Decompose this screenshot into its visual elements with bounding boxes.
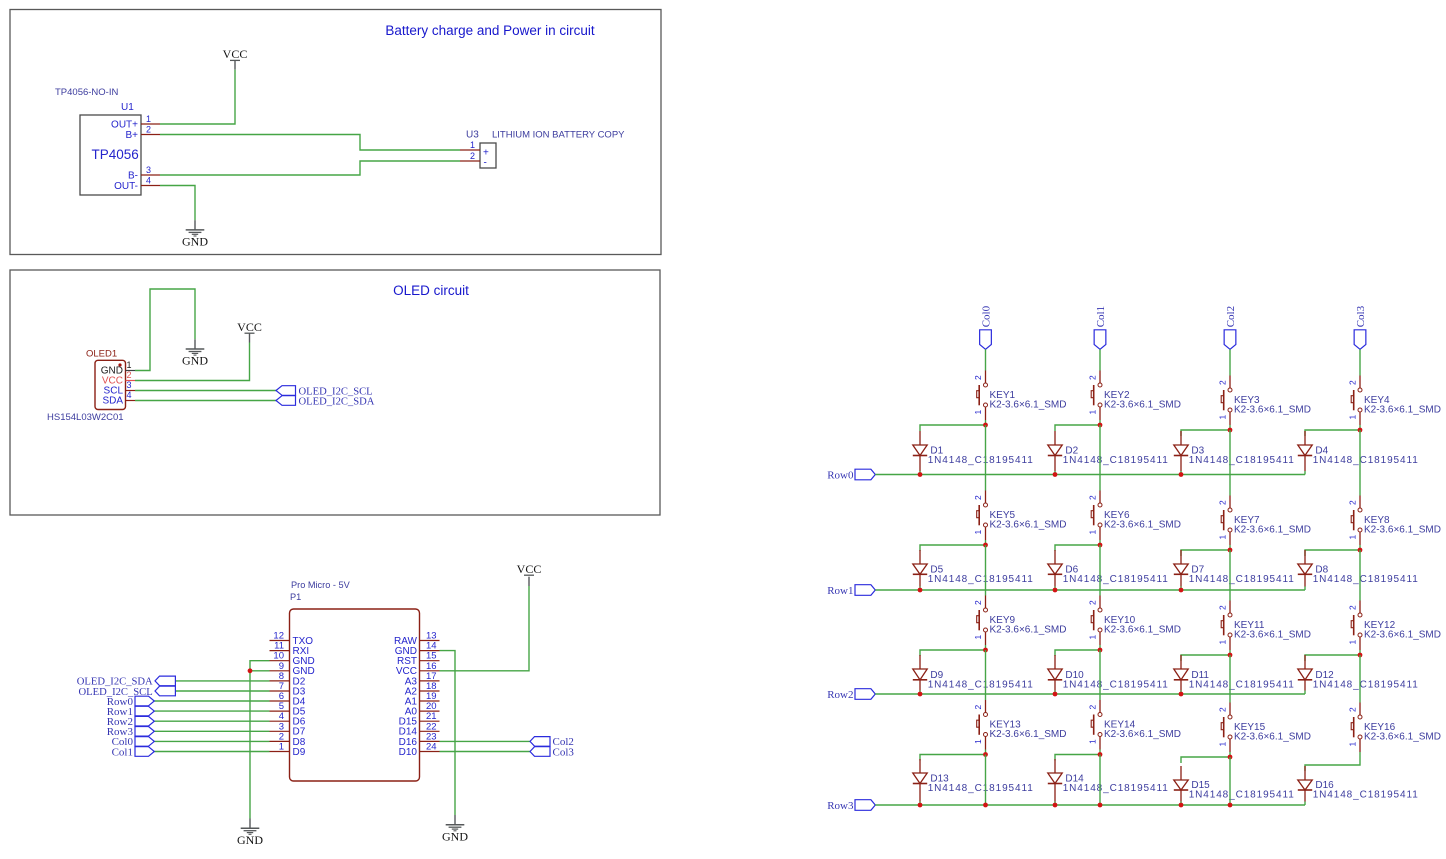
wire U1 OUT- to GND bbox=[160, 186, 195, 221]
power flag VCC (OLED section) bbox=[237, 320, 262, 343]
svg-text:Pro Micro - 5V: Pro Micro - 5V bbox=[291, 580, 351, 590]
wire column 0 to Row3 bbox=[985, 755, 987, 806]
svg-text:1: 1 bbox=[1348, 742, 1358, 747]
svg-text:1: 1 bbox=[1218, 415, 1228, 420]
svg-text:OLED circuit: OLED circuit bbox=[393, 283, 469, 298]
svg-text:2: 2 bbox=[973, 600, 983, 605]
power flag VCC (Pro Micro) bbox=[517, 562, 542, 586]
wire KEY11 junction to D11 bbox=[1181, 655, 1230, 661]
wire column 0 between rows bbox=[985, 425, 987, 491]
wire KEY16 to D16 bbox=[1305, 757, 1360, 771]
wire VCC to U1 pin 1 bbox=[160, 70, 235, 124]
svg-text:VCC: VCC bbox=[237, 320, 262, 334]
wire Col0 label down to KEY1 bbox=[985, 349, 987, 370]
wire column 2 between rows bbox=[1229, 430, 1231, 496]
svg-text:24: 24 bbox=[426, 742, 437, 753]
wire VCC to P1 pin16 bbox=[440, 586, 530, 671]
node junction KEY14 bbox=[1098, 752, 1103, 757]
node junction column 1 Row3 bbox=[1098, 803, 1103, 808]
wire KEY3 junction to D3 bbox=[1181, 430, 1230, 436]
svg-text:1N4148_C18195411: 1N4148_C18195411 bbox=[928, 455, 1034, 466]
wire P1 pin10 GND down bbox=[250, 661, 270, 671]
svg-text:1N4148_C18195411: 1N4148_C18195411 bbox=[1189, 679, 1295, 690]
switch KEY16 K2-3.6x6.1_SMD bbox=[1348, 703, 1442, 758]
wire KEY12 junction to D12 bbox=[1305, 655, 1360, 661]
wire column 1 between rows bbox=[1099, 545, 1101, 596]
svg-text:1N4148_C18195411: 1N4148_C18195411 bbox=[1189, 574, 1295, 585]
node junction KEY8 bbox=[1358, 548, 1363, 553]
diode D2 1N4148_C18195411 bbox=[1048, 431, 1169, 475]
switch KEY5 K2-3.6x6.1_SMD bbox=[973, 491, 1067, 546]
node junction column 2 Row3 bbox=[1228, 803, 1233, 808]
svg-text:Col3: Col3 bbox=[1355, 305, 1367, 327]
svg-text:1: 1 bbox=[973, 530, 983, 535]
svg-text:2: 2 bbox=[1088, 375, 1098, 380]
svg-text:1: 1 bbox=[973, 635, 983, 640]
svg-text:SDA: SDA bbox=[102, 395, 123, 406]
wire Row2 to P1 bbox=[154, 720, 269, 722]
wire column 0 between rows bbox=[985, 545, 987, 596]
svg-text:Row3: Row3 bbox=[827, 800, 854, 812]
diode D10 1N4148_C18195411 bbox=[1048, 655, 1169, 694]
diode D4 1N4148_C18195411 bbox=[1298, 431, 1419, 475]
svg-text:1: 1 bbox=[1348, 535, 1358, 540]
svg-text:2: 2 bbox=[1088, 600, 1098, 605]
node junction KEY9 bbox=[983, 648, 988, 653]
svg-text:-: - bbox=[484, 157, 487, 168]
svg-text:K2-3.6×6.1_SMD: K2-3.6×6.1_SMD bbox=[1364, 630, 1441, 641]
wire OLED1 SDA to label bbox=[135, 400, 276, 402]
svg-text:3: 3 bbox=[127, 380, 132, 390]
ground GND (Pro Micro right) bbox=[442, 815, 468, 843]
svg-text:2: 2 bbox=[146, 125, 151, 135]
svg-text:Col1: Col1 bbox=[112, 746, 133, 758]
power flag VCC (battery section) bbox=[223, 47, 248, 69]
net label Row2 bbox=[827, 689, 875, 701]
wire junction to GND bbox=[249, 671, 251, 819]
wire column 1 between rows bbox=[1099, 650, 1101, 700]
net label Col0 (matrix top) bbox=[980, 305, 993, 349]
wire Col1 to P1 bbox=[154, 751, 269, 753]
svg-text:P1: P1 bbox=[290, 592, 301, 602]
node junction KEY7 bbox=[1228, 548, 1233, 553]
wire column 2 to Row3 bbox=[1229, 757, 1231, 805]
node junction KEY11 bbox=[1228, 653, 1233, 658]
svg-text:2: 2 bbox=[973, 705, 983, 710]
wire column 3 between rows bbox=[1359, 550, 1361, 601]
ground GND (battery section) bbox=[182, 220, 208, 248]
svg-text:1N4148_C18195411: 1N4148_C18195411 bbox=[928, 679, 1034, 690]
net label Row2 bbox=[107, 716, 155, 728]
wire VCC to OLED1 pin2 bbox=[135, 343, 250, 381]
net label Row0 bbox=[107, 696, 155, 708]
wire Row0 to P1 bbox=[154, 700, 269, 702]
node junction D9 Row2 bbox=[918, 692, 923, 697]
diode D15 1N4148_C18195411 bbox=[1174, 766, 1295, 805]
svg-text:Battery charge and Power in ci: Battery charge and Power in circuit bbox=[385, 23, 595, 38]
MCU P1 Pro Micro - 5V bbox=[270, 580, 440, 781]
switch KEY8 K2-3.6x6.1_SMD bbox=[1348, 496, 1442, 551]
svg-text:K2-3.6×6.1_SMD: K2-3.6×6.1_SMD bbox=[1364, 732, 1441, 743]
svg-text:K2-3.6×6.1_SMD: K2-3.6×6.1_SMD bbox=[990, 520, 1067, 531]
section box: Battery charge and Power in circuit bbox=[10, 10, 661, 255]
svg-text:1: 1 bbox=[1088, 530, 1098, 535]
svg-text:D9: D9 bbox=[293, 747, 306, 758]
node junction column 0 Row3 bbox=[983, 803, 988, 808]
wire KEY5 junction to D5 bbox=[920, 545, 986, 551]
svg-text:1N4148_C18195411: 1N4148_C18195411 bbox=[1063, 783, 1169, 794]
wire KEY14 junction to D14 bbox=[1055, 755, 1100, 761]
svg-text:2: 2 bbox=[1348, 707, 1358, 712]
node junction KEY12 bbox=[1358, 653, 1363, 658]
IC U1 TP4056 bbox=[55, 87, 160, 195]
svg-text:2: 2 bbox=[1218, 380, 1228, 385]
svg-text:OLED1: OLED1 bbox=[86, 349, 117, 360]
svg-text:TP4056-NO-IN: TP4056-NO-IN bbox=[55, 87, 118, 98]
svg-text:1: 1 bbox=[1088, 410, 1098, 415]
switch KEY15 K2-3.6x6.1_SMD bbox=[1218, 703, 1312, 758]
switch KEY10 K2-3.6x6.1_SMD bbox=[1088, 596, 1182, 651]
svg-text:1N4148_C18195411: 1N4148_C18195411 bbox=[928, 783, 1034, 794]
wire Col2 label down to KEY3 bbox=[1229, 349, 1231, 375]
svg-text:1N4148_C18195411: 1N4148_C18195411 bbox=[1189, 455, 1295, 466]
switch KEY1 K2-3.6x6.1_SMD bbox=[973, 371, 1067, 426]
svg-text:1: 1 bbox=[470, 140, 475, 150]
net label Row3 bbox=[827, 800, 875, 812]
net label Row1 bbox=[827, 585, 875, 597]
svg-text:K2-3.6×6.1_SMD: K2-3.6×6.1_SMD bbox=[990, 625, 1067, 636]
wire column 1 to Row3 bbox=[1099, 755, 1101, 806]
switch KEY14 K2-3.6x6.1_SMD bbox=[1088, 700, 1182, 755]
net label Col1 (matrix top) bbox=[1094, 306, 1107, 349]
svg-text:1N4148_C18195411: 1N4148_C18195411 bbox=[1313, 574, 1419, 585]
node junction KEY6 bbox=[1098, 543, 1103, 548]
wire KEY6 junction to D6 bbox=[1055, 545, 1100, 551]
net label OLED_I2C_SCL bbox=[276, 386, 373, 398]
wire KEY8 junction to D8 bbox=[1305, 550, 1360, 556]
node junction D1 Row0 bbox=[918, 472, 923, 477]
svg-text:2: 2 bbox=[1348, 605, 1358, 610]
svg-text:K2-3.6×6.1_SMD: K2-3.6×6.1_SMD bbox=[990, 729, 1067, 740]
svg-text:K2-3.6×6.1_SMD: K2-3.6×6.1_SMD bbox=[1234, 630, 1311, 641]
wire column 2 between rows bbox=[1229, 655, 1231, 703]
svg-text:VCC: VCC bbox=[223, 47, 248, 61]
wire column 3 between rows bbox=[1359, 430, 1361, 496]
svg-text:2: 2 bbox=[127, 370, 132, 380]
net label Col3 (matrix top) bbox=[1354, 305, 1367, 349]
svg-text:B+: B+ bbox=[125, 130, 138, 141]
svg-text:2: 2 bbox=[1088, 495, 1098, 500]
svg-text:HS154L03W2C01: HS154L03W2C01 bbox=[47, 412, 124, 423]
svg-text:Row0: Row0 bbox=[827, 470, 854, 482]
svg-text:GND: GND bbox=[442, 829, 468, 843]
node junction D15 Row3 bbox=[1179, 803, 1184, 808]
net label Col1 bbox=[112, 746, 155, 758]
svg-text:VCC: VCC bbox=[517, 562, 542, 576]
node junction KEY3 bbox=[1228, 428, 1233, 433]
wire Row3 horizontal bbox=[875, 804, 1305, 806]
node junction D6 Row1 bbox=[1053, 588, 1058, 593]
svg-text:K2-3.6×6.1_SMD: K2-3.6×6.1_SMD bbox=[1234, 732, 1311, 743]
wire Row2 horizontal bbox=[875, 693, 1305, 695]
svg-text:3: 3 bbox=[146, 165, 151, 175]
net label OLED_I2C_SCL bbox=[79, 686, 176, 698]
svg-text:1: 1 bbox=[973, 410, 983, 415]
wire U1 B- to battery pin 2 bbox=[160, 161, 460, 175]
wire column 2 between rows bbox=[1229, 550, 1231, 601]
svg-text:2: 2 bbox=[1218, 605, 1228, 610]
svg-text:OUT-: OUT- bbox=[114, 181, 138, 192]
switch KEY7 K2-3.6x6.1_SMD bbox=[1218, 496, 1312, 551]
svg-text:Col2: Col2 bbox=[1225, 306, 1237, 327]
wire KEY13 junction to D13 bbox=[920, 755, 986, 761]
wire OLED1 pin1 to GND bbox=[135, 289, 195, 371]
node junction KEY4 bbox=[1358, 428, 1363, 433]
svg-text:4: 4 bbox=[127, 390, 132, 400]
node junction D10 Row2 bbox=[1053, 692, 1058, 697]
node junction KEY5 bbox=[983, 543, 988, 548]
svg-text:Row2: Row2 bbox=[827, 689, 853, 701]
svg-text:1: 1 bbox=[127, 360, 132, 370]
net label Col2 bbox=[530, 736, 574, 748]
svg-text:1: 1 bbox=[1218, 640, 1228, 645]
svg-text:1: 1 bbox=[973, 739, 983, 744]
wire KEY4 junction to D4 bbox=[1305, 430, 1360, 436]
svg-text:1: 1 bbox=[1088, 739, 1098, 744]
node junction D13 Row3 bbox=[918, 803, 923, 808]
diode D6 1N4148_C18195411 bbox=[1048, 550, 1169, 590]
wire KEY2 junction to D2 bbox=[1055, 425, 1100, 431]
wire KEY10 junction to D10 bbox=[1055, 650, 1100, 656]
svg-text:1: 1 bbox=[146, 114, 151, 124]
wire OLED_I2C_SCL to P1 bbox=[175, 690, 269, 692]
switch KEY3 K2-3.6x6.1_SMD bbox=[1218, 376, 1312, 431]
wire OLED_I2C_SDA to P1 bbox=[175, 680, 269, 682]
net label Col2 (matrix top) bbox=[1224, 306, 1237, 349]
svg-text:D10: D10 bbox=[399, 747, 418, 758]
node junction KEY15 bbox=[1228, 755, 1233, 760]
section box: OLED circuit bbox=[10, 270, 660, 515]
wire column 3 between rows bbox=[1359, 655, 1361, 703]
node junction D14 Row3 bbox=[1053, 803, 1058, 808]
wire KEY9 junction to D9 bbox=[920, 650, 986, 656]
svg-text:1: 1 bbox=[1348, 640, 1358, 645]
svg-text:1N4148_C18195411: 1N4148_C18195411 bbox=[1063, 679, 1169, 690]
switch KEY12 K2-3.6x6.1_SMD bbox=[1348, 601, 1442, 656]
svg-text:K2-3.6×6.1_SMD: K2-3.6×6.1_SMD bbox=[990, 400, 1067, 411]
svg-text:Row1: Row1 bbox=[827, 585, 853, 597]
diode D9 1N4148_C18195411 bbox=[913, 655, 1034, 694]
switch KEY9 K2-3.6x6.1_SMD bbox=[973, 596, 1067, 651]
node junction pin9/pin10 bbox=[248, 668, 253, 673]
wire column 0 between rows bbox=[985, 650, 987, 700]
diode D12 1N4148_C18195411 bbox=[1298, 655, 1419, 694]
wire P1 pin9 GND to ground bbox=[250, 670, 270, 672]
svg-text:GND: GND bbox=[237, 833, 263, 847]
svg-text:K2-3.6×6.1_SMD: K2-3.6×6.1_SMD bbox=[1364, 405, 1441, 416]
wire U1 B+ to battery pin 1 bbox=[160, 135, 460, 151]
net label Row0 bbox=[827, 469, 875, 481]
svg-text:1N4148_C18195411: 1N4148_C18195411 bbox=[1313, 790, 1419, 801]
svg-text:1N4148_C18195411: 1N4148_C18195411 bbox=[928, 574, 1034, 585]
svg-text:1: 1 bbox=[279, 742, 284, 753]
wire Col0 to P1 bbox=[154, 740, 269, 742]
diode D8 1N4148_C18195411 bbox=[1298, 550, 1419, 590]
svg-text:LITHIUM ION BATTERY COPY: LITHIUM ION BATTERY COPY bbox=[492, 130, 625, 141]
svg-text:K2-3.6×6.1_SMD: K2-3.6×6.1_SMD bbox=[1104, 520, 1181, 531]
battery U3 LITHIUM ION BATTERY COPY bbox=[460, 130, 625, 169]
wire OLED1 SCL to label bbox=[135, 390, 276, 392]
svg-text:1N4148_C18195411: 1N4148_C18195411 bbox=[1189, 790, 1295, 801]
wire P1 pin23 D16 to Col2 bbox=[440, 740, 531, 742]
svg-text:GND: GND bbox=[182, 235, 208, 249]
node junction D5 Row1 bbox=[918, 588, 923, 593]
node junction KEY2 bbox=[1098, 423, 1103, 428]
svg-text:OUT+: OUT+ bbox=[111, 119, 138, 130]
svg-text:2: 2 bbox=[470, 151, 475, 161]
svg-text:K2-3.6×6.1_SMD: K2-3.6×6.1_SMD bbox=[1234, 525, 1311, 536]
diode D14 1N4148_C18195411 bbox=[1048, 759, 1169, 805]
net label Row1 bbox=[107, 706, 155, 718]
svg-text:TP4056: TP4056 bbox=[92, 147, 139, 162]
svg-text:K2-3.6×6.1_SMD: K2-3.6×6.1_SMD bbox=[1104, 625, 1181, 636]
diode D11 1N4148_C18195411 bbox=[1174, 655, 1295, 694]
node junction D7 Row1 bbox=[1179, 588, 1184, 593]
svg-text:1: 1 bbox=[1348, 415, 1358, 420]
svg-text:2: 2 bbox=[1088, 705, 1098, 710]
svg-text:1: 1 bbox=[1218, 742, 1228, 747]
diode D16 1N4148_C18195411 bbox=[1298, 766, 1419, 805]
svg-text:Col1: Col1 bbox=[1095, 306, 1107, 327]
module OLED1 HS154L03W2C01 bbox=[47, 349, 135, 424]
svg-text:GND: GND bbox=[182, 354, 208, 368]
net label Col0 bbox=[112, 736, 155, 748]
net label Col3 bbox=[530, 746, 574, 758]
node junction KEY13 bbox=[983, 752, 988, 757]
svg-text:K2-3.6×6.1_SMD: K2-3.6×6.1_SMD bbox=[1234, 405, 1311, 416]
svg-text:2: 2 bbox=[1348, 500, 1358, 505]
svg-text:K2-3.6×6.1_SMD: K2-3.6×6.1_SMD bbox=[1104, 400, 1181, 411]
svg-text:1N4148_C18195411: 1N4148_C18195411 bbox=[1063, 455, 1169, 466]
wire KEY7 junction to D7 bbox=[1181, 550, 1230, 556]
net label OLED_I2C_SDA bbox=[77, 676, 176, 688]
node junction KEY10 bbox=[1098, 648, 1103, 653]
switch KEY2 K2-3.6x6.1_SMD bbox=[1088, 371, 1182, 426]
svg-text:K2-3.6×6.1_SMD: K2-3.6×6.1_SMD bbox=[1104, 729, 1181, 740]
wire KEY1 junction to D1 bbox=[920, 425, 986, 431]
wire Col1 label down to KEY2 bbox=[1099, 349, 1101, 370]
diode D5 1N4148_C18195411 bbox=[913, 550, 1034, 590]
svg-text:1N4148_C18195411: 1N4148_C18195411 bbox=[1063, 574, 1169, 585]
svg-text:OLED_I2C_SDA: OLED_I2C_SDA bbox=[299, 396, 375, 407]
net label Row3 bbox=[107, 726, 155, 738]
switch KEY6 K2-3.6x6.1_SMD bbox=[1088, 491, 1182, 546]
net label OLED_I2C_SDA bbox=[276, 396, 375, 408]
svg-text:1N4148_C18195411: 1N4148_C18195411 bbox=[1313, 455, 1419, 466]
svg-text:2: 2 bbox=[973, 375, 983, 380]
ground GND (OLED section) bbox=[182, 339, 208, 367]
diode D13 1N4148_C18195411 bbox=[913, 759, 1034, 805]
svg-text:4: 4 bbox=[146, 176, 151, 186]
svg-text:Col0: Col0 bbox=[980, 305, 992, 327]
svg-text:K2-3.6×6.1_SMD: K2-3.6×6.1_SMD bbox=[1364, 525, 1441, 536]
svg-text:1: 1 bbox=[1218, 535, 1228, 540]
svg-text:2: 2 bbox=[973, 495, 983, 500]
wire KEY15 junction to D15 bbox=[1181, 757, 1230, 763]
wire Row1 to P1 bbox=[154, 710, 269, 712]
switch KEY11 K2-3.6x6.1_SMD bbox=[1218, 601, 1312, 656]
diode D1 1N4148_C18195411 bbox=[913, 431, 1034, 475]
svg-text:Col3: Col3 bbox=[553, 746, 575, 758]
svg-text:U1: U1 bbox=[121, 102, 134, 113]
wire P1 pin14 GND to ground bbox=[440, 651, 456, 815]
svg-text:2: 2 bbox=[1218, 707, 1228, 712]
diode D3 1N4148_C18195411 bbox=[1174, 431, 1295, 475]
wire Row3 to P1 bbox=[154, 730, 269, 732]
svg-text:2: 2 bbox=[1348, 380, 1358, 385]
ground GND (Pro Micro left) bbox=[237, 819, 263, 847]
wire P1 pin24 D10 to Col3 bbox=[440, 751, 531, 753]
node junction D11 Row2 bbox=[1179, 692, 1184, 697]
switch KEY13 K2-3.6x6.1_SMD bbox=[973, 700, 1067, 755]
wire Row0 horizontal bbox=[875, 474, 1305, 476]
node junction KEY1 bbox=[983, 423, 988, 428]
wire Row1 horizontal bbox=[875, 589, 1305, 591]
svg-text:2: 2 bbox=[1218, 500, 1228, 505]
svg-text:B-: B- bbox=[128, 170, 138, 181]
diode D7 1N4148_C18195411 bbox=[1174, 550, 1295, 590]
wire Col3 label down to KEY4 bbox=[1359, 349, 1361, 375]
node junction D3 Row0 bbox=[1179, 472, 1184, 477]
switch KEY4 K2-3.6x6.1_SMD bbox=[1348, 376, 1442, 431]
wire column 1 between rows bbox=[1099, 425, 1101, 491]
svg-text:1: 1 bbox=[1088, 635, 1098, 640]
svg-text:1N4148_C18195411: 1N4148_C18195411 bbox=[1313, 679, 1419, 690]
node junction D2 Row0 bbox=[1053, 472, 1058, 477]
